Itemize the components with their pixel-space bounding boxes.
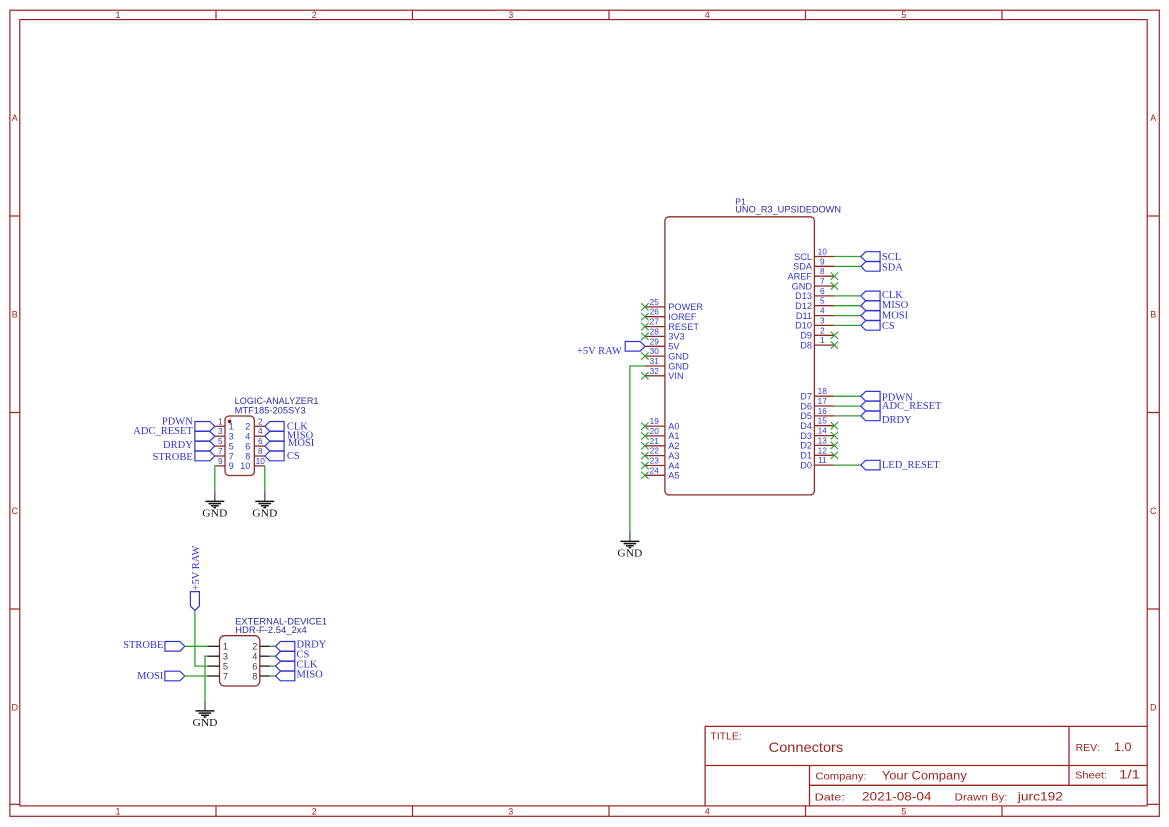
- svg-text:22: 22: [650, 446, 660, 456]
- power flag +5V RAW (above EXTERNAL-DEVICE1): [190, 545, 202, 610]
- svg-text:9: 9: [218, 456, 223, 466]
- wire EXTERNAL-DEVICE1 pin 3 to ground: [205, 656, 207, 701]
- svg-text:1: 1: [820, 335, 825, 345]
- svg-text:DRDY: DRDY: [882, 415, 912, 426]
- svg-text:9: 9: [820, 256, 825, 266]
- LOGIC-ANALYZER1 pin 9: [215, 456, 234, 471]
- svg-text:6: 6: [258, 436, 263, 446]
- P1 pin 4 (D11): [796, 306, 835, 321]
- svg-text:VIN: VIN: [668, 371, 683, 381]
- EXTERNAL-DEVICE1 pin 8: [252, 671, 270, 681]
- svg-text:HDR-F-2.54_2x4: HDR-F-2.54_2x4: [235, 625, 307, 635]
- svg-text:8: 8: [258, 446, 263, 456]
- svg-text:D: D: [1150, 702, 1157, 712]
- svg-text:GND: GND: [668, 361, 689, 371]
- svg-text:MOSI: MOSI: [288, 438, 315, 449]
- svg-text:15: 15: [818, 416, 828, 426]
- svg-text:6: 6: [252, 661, 257, 671]
- svg-text:DRDY: DRDY: [163, 440, 193, 451]
- no-connect X on P1 pin 21: [641, 442, 648, 449]
- P1 pin 32 (VIN): [645, 366, 684, 381]
- svg-text:26: 26: [650, 307, 660, 317]
- svg-text:4: 4: [820, 306, 825, 316]
- svg-text:CS: CS: [287, 451, 300, 462]
- net flag CS (P1 side): [861, 321, 895, 332]
- svg-text:UNO_R3_UPSIDEDOWN: UNO_R3_UPSIDEDOWN: [735, 205, 841, 215]
- svg-text:3: 3: [820, 315, 825, 325]
- P1 pin 13 (D2): [800, 435, 834, 450]
- net flag DRDY (P1 side): [861, 411, 912, 426]
- wire LOGIC-ANALYZER1 pin 10 to ground: [264, 466, 266, 492]
- svg-text:2: 2: [820, 325, 825, 335]
- LOGIC-ANALYZER1 pin 8: [245, 446, 265, 461]
- connector EXTERNAL-DEVICE1 HDR-F-2.54_2x4 body: [220, 617, 328, 687]
- svg-text:ADC_RESET: ADC_RESET: [133, 426, 193, 437]
- svg-text:MTF185-205SY3: MTF185-205SY3: [235, 405, 306, 415]
- svg-text:7: 7: [820, 276, 825, 286]
- EXTERNAL-DEVICE1 pin 6: [252, 661, 270, 671]
- P1 pin 14 (D3): [800, 426, 834, 441]
- svg-text:GND: GND: [792, 281, 813, 291]
- svg-text:D9: D9: [800, 331, 812, 341]
- svg-text:30: 30: [650, 346, 660, 356]
- wire P1 to net flag SDA: [834, 265, 860, 267]
- svg-text:3: 3: [508, 10, 513, 20]
- svg-text:8: 8: [252, 671, 257, 681]
- svg-text:2: 2: [312, 10, 317, 20]
- net flag MOSI (P1 side): [861, 311, 909, 322]
- no-connect X on P1 pin 14: [831, 432, 838, 439]
- P1 pin 31 (GND): [645, 356, 689, 371]
- P1 pin 3 (D10): [795, 315, 834, 330]
- svg-text:POWER: POWER: [668, 302, 703, 312]
- P1 pin 15 (D4): [800, 416, 834, 431]
- svg-text:21: 21: [650, 436, 660, 446]
- wire P1 to net flag PDWN: [834, 395, 860, 397]
- wire P1 pin 31 (GND) down to ground: [630, 366, 645, 531]
- svg-text:1: 1: [223, 642, 228, 652]
- P1 pin 12 (D1): [800, 445, 834, 460]
- EXTERNAL-DEVICE1 pin 4: [252, 652, 270, 662]
- svg-text:5: 5: [223, 661, 228, 671]
- LOGIC-ANALYZER1 pin 7: [215, 446, 234, 461]
- svg-text:CS: CS: [882, 321, 895, 332]
- svg-text:5: 5: [229, 441, 234, 451]
- net flag CS (LOGIC-ANALYZER1 side): [265, 451, 300, 462]
- pin 1 marker dot on LOGIC-ANALYZER1: [228, 420, 232, 424]
- LOGIC-ANALYZER1 pin 10: [240, 456, 265, 471]
- svg-text:9: 9: [229, 461, 234, 471]
- svg-text:Date:: Date:: [815, 792, 845, 804]
- svg-text:STROBE: STROBE: [153, 452, 193, 463]
- no-connect X on P1 pin 8: [831, 273, 838, 280]
- svg-text:1.0: 1.0: [1114, 742, 1132, 754]
- svg-text:GND: GND: [617, 547, 642, 559]
- svg-text:6: 6: [820, 286, 825, 296]
- P1 pin 27 (RESET): [645, 317, 699, 332]
- svg-text:3V3: 3V3: [668, 332, 684, 342]
- svg-text:6: 6: [245, 441, 250, 451]
- svg-text:RESET: RESET: [668, 322, 699, 332]
- svg-text:REV:: REV:: [1076, 742, 1100, 754]
- svg-text:IOREF: IOREF: [668, 312, 696, 322]
- svg-text:5: 5: [820, 296, 825, 306]
- LOGIC-ANALYZER1 pin 1: [215, 416, 234, 431]
- P1 pin 26 (IOREF): [645, 307, 697, 322]
- P1 pin 28 (3V3): [645, 326, 685, 341]
- net flag DRDY (EXTERNAL-DEVICE1 side): [276, 640, 327, 651]
- P1 pin 18 (D7): [800, 386, 834, 401]
- net flag SCL (P1 side): [861, 252, 901, 263]
- svg-text:MOSI: MOSI: [137, 671, 164, 682]
- svg-text:D: D: [12, 702, 19, 712]
- svg-text:D6: D6: [800, 401, 812, 411]
- LOGIC-ANALYZER1 pin 3: [215, 426, 234, 441]
- P1 pin 11 (D0): [800, 455, 834, 470]
- svg-text:3: 3: [223, 652, 228, 662]
- svg-text:5: 5: [901, 10, 906, 20]
- P1 pin 16 (D5): [800, 406, 834, 421]
- svg-text:1: 1: [115, 806, 120, 816]
- net flag CLK (LOGIC-ANALYZER1 side): [265, 421, 309, 432]
- wire MOSI flag to EXTERNAL-DEVICE1 pin 7: [185, 675, 208, 677]
- P1 pin 24 (A5): [645, 465, 680, 480]
- svg-text:1: 1: [218, 416, 223, 426]
- svg-text:4: 4: [258, 426, 263, 436]
- svg-text:D3: D3: [800, 431, 812, 441]
- no-connect X on P1 pin 26: [641, 313, 648, 320]
- svg-text:10: 10: [256, 456, 266, 466]
- svg-text:20: 20: [650, 426, 660, 436]
- wire EXTERNAL-DEVICE1 to net flag MISO: [270, 675, 276, 677]
- net flag MOSI (EXTERNAL-DEVICE1 side): [137, 671, 185, 682]
- wire P1 to net flag LED_RESET: [834, 464, 860, 466]
- no-connect X on P1 pin 20: [641, 432, 648, 439]
- P1 pin 29 (5V): [645, 336, 681, 351]
- net flag PDWN (P1 side): [861, 391, 913, 403]
- svg-text:32: 32: [650, 366, 660, 376]
- svg-text:LED_RESET: LED_RESET: [882, 460, 940, 471]
- svg-text:4: 4: [245, 432, 250, 442]
- P1 pin 30 (GND): [645, 346, 689, 361]
- svg-text:A4: A4: [668, 461, 679, 471]
- net flag CS (EXTERNAL-DEVICE1 side): [276, 650, 310, 661]
- svg-text:A2: A2: [668, 441, 679, 451]
- svg-text:C: C: [12, 506, 19, 516]
- no-connect X on P1 pin 32: [641, 372, 648, 379]
- svg-text:1: 1: [229, 422, 234, 432]
- P1 pin 23 (A4): [645, 456, 680, 471]
- svg-text:11: 11: [818, 455, 827, 465]
- svg-text:A0: A0: [668, 421, 679, 431]
- net flag ADC_RESET (P1 side): [861, 401, 942, 412]
- svg-text:ADC_RESET: ADC_RESET: [882, 401, 942, 412]
- svg-text:A1: A1: [668, 431, 679, 441]
- svg-text:GND: GND: [193, 717, 218, 729]
- P1 pin 2 (D9): [800, 325, 834, 340]
- svg-text:2021-08-04: 2021-08-04: [862, 790, 932, 804]
- ground symbol GND (below EXTERNAL-DEVICE1): [193, 701, 218, 729]
- net flag DRDY (LOGIC-ANALYZER1 side): [163, 440, 215, 451]
- svg-text:8: 8: [245, 451, 250, 461]
- P1 pin 19 (A0): [645, 416, 680, 431]
- ground symbol GND (below P1): [617, 531, 642, 559]
- P1 pin 20 (A1): [645, 426, 680, 441]
- wire P1 to net flag CLK: [834, 295, 860, 297]
- no-connect X on P1 pin 15: [831, 422, 838, 429]
- svg-text:3: 3: [218, 426, 223, 436]
- svg-text:GND: GND: [668, 351, 689, 361]
- net flag ADC_RESET (LOGIC-ANALYZER1 side): [133, 426, 215, 441]
- svg-text:A5: A5: [668, 471, 679, 481]
- svg-text:MOSI: MOSI: [882, 311, 909, 322]
- P1 pin 9 (SDA): [793, 256, 834, 271]
- svg-text:+5V RAW: +5V RAW: [577, 346, 622, 357]
- svg-text:D11: D11: [796, 311, 812, 321]
- svg-text:2: 2: [252, 642, 257, 652]
- svg-text:jurc192: jurc192: [1017, 790, 1064, 804]
- title block: [705, 726, 1147, 806]
- svg-text:D2: D2: [800, 441, 812, 451]
- svg-text:D13: D13: [795, 291, 812, 301]
- P1 pin 5 (D12): [795, 296, 834, 311]
- no-connect X on P1 pin 27: [641, 323, 648, 330]
- P1 pin 21 (A2): [645, 436, 680, 451]
- svg-text:Your Company: Your Company: [882, 770, 967, 782]
- net flag MISO (P1 side): [861, 300, 909, 311]
- EXTERNAL-DEVICE1 pin 7: [207, 671, 228, 681]
- P1 pin 22 (A3): [645, 446, 680, 461]
- P1 pin 25 (POWER): [645, 297, 703, 312]
- P1 pin 8 (AREF): [787, 266, 834, 281]
- no-connect X on P1 pin 24: [641, 472, 648, 479]
- net flag MISO (EXTERNAL-DEVICE1 side): [276, 670, 324, 681]
- net flag CLK (P1 side): [861, 290, 904, 301]
- LOGIC-ANALYZER1 pin 6: [245, 436, 265, 451]
- no-connect X on P1 pin 25: [641, 303, 648, 310]
- svg-text:5V: 5V: [668, 342, 680, 352]
- svg-text:A3: A3: [668, 451, 679, 461]
- wire P1 to net flag CS: [834, 324, 860, 326]
- wire P1 to net flag DRDY: [834, 415, 860, 417]
- net flag MISO (LOGIC-ANALYZER1 side): [265, 430, 314, 441]
- P1 pin 6 (D13): [795, 286, 834, 301]
- svg-text:7: 7: [223, 671, 228, 681]
- net flag LED_RESET (P1 side): [861, 460, 940, 471]
- wire EXTERNAL-DEVICE1 to net flag CS: [270, 655, 276, 657]
- svg-text:31: 31: [650, 356, 660, 366]
- svg-text:3: 3: [229, 432, 234, 442]
- EXTERNAL-DEVICE1 pin 2: [252, 642, 270, 652]
- svg-text:16: 16: [818, 406, 828, 416]
- svg-text:28: 28: [650, 326, 660, 336]
- svg-text:MISO: MISO: [297, 670, 324, 681]
- svg-text:3: 3: [508, 806, 513, 816]
- no-connect X on P1 pin 28: [641, 333, 648, 340]
- svg-text:27: 27: [650, 317, 660, 327]
- svg-text:1: 1: [115, 10, 120, 20]
- wire P1 to net flag MOSI: [834, 315, 860, 317]
- no-connect X on P1 pin 23: [641, 462, 648, 469]
- svg-text:D7: D7: [800, 392, 812, 402]
- svg-text:13: 13: [818, 435, 828, 445]
- svg-text:18: 18: [818, 386, 828, 396]
- svg-text:+5V RAW: +5V RAW: [191, 545, 202, 590]
- P1 pin 1 (D8): [800, 335, 834, 350]
- no-connect X on P1 pin 2: [831, 332, 838, 339]
- wire STROBE flag to EXTERNAL-DEVICE1 pin 1: [185, 645, 208, 647]
- wire P1 to net flag ADC_RESET: [834, 405, 860, 407]
- wire LOGIC-ANALYZER1 pin 9 to ground: [214, 466, 216, 492]
- svg-text:D8: D8: [800, 340, 812, 350]
- P1 pin 10 (SCL): [794, 247, 834, 262]
- net flag MOSI (LOGIC-ANALYZER1 side): [265, 438, 315, 451]
- no-connect X on P1 pin 1: [831, 341, 838, 348]
- wire EXTERNAL-DEVICE1 to net flag DRDY: [270, 645, 276, 647]
- svg-text:4: 4: [705, 806, 710, 816]
- no-connect X on P1 pin 13: [831, 442, 838, 449]
- P1 pin 7 (GND): [792, 276, 835, 291]
- ground symbol GND (below LOGIC-ANALYZER1 pin 9): [202, 491, 227, 519]
- svg-text:SDA: SDA: [882, 262, 903, 273]
- no-connect X on P1 pin 22: [641, 452, 648, 459]
- svg-text:D10: D10: [795, 321, 812, 331]
- svg-text:LOGIC-ANALYZER1: LOGIC-ANALYZER1: [235, 396, 319, 406]
- net flag SDA (P1 side): [861, 262, 904, 274]
- svg-text:23: 23: [650, 456, 660, 466]
- svg-text:A: A: [1150, 113, 1156, 123]
- svg-text:10: 10: [818, 247, 828, 257]
- power flag +5V RAW on P1 pin 29: [577, 342, 645, 357]
- no-connect X on P1 pin 7: [831, 282, 838, 289]
- svg-text:10: 10: [240, 461, 250, 471]
- svg-text:SCL: SCL: [794, 252, 812, 262]
- LOGIC-ANALYZER1 pin 4: [245, 426, 265, 441]
- svg-text:2: 2: [312, 806, 317, 816]
- svg-text:C: C: [1150, 506, 1157, 516]
- svg-text:7: 7: [218, 446, 223, 456]
- no-connect X on P1 pin 30: [641, 352, 648, 359]
- svg-text:MISO: MISO: [882, 300, 909, 311]
- LOGIC-ANALYZER1 pin 5: [215, 436, 234, 451]
- ground symbol GND (below LOGIC-ANALYZER1 pin 10): [252, 491, 277, 519]
- net flag STROBE (EXTERNAL-DEVICE1 side): [123, 640, 185, 651]
- svg-text:B: B: [12, 309, 18, 319]
- svg-text:Drawn By:: Drawn By:: [955, 792, 1008, 804]
- svg-text:17: 17: [818, 396, 828, 406]
- svg-text:25: 25: [650, 297, 660, 307]
- svg-text:Sheet:: Sheet:: [1075, 769, 1107, 781]
- svg-text:TITLE:: TITLE:: [710, 730, 742, 742]
- svg-text:8: 8: [820, 266, 825, 276]
- svg-text:Connectors: Connectors: [769, 739, 844, 755]
- svg-text:1/1: 1/1: [1119, 769, 1140, 781]
- EXTERNAL-DEVICE1 pin 5: [207, 661, 228, 671]
- svg-text:5: 5: [218, 436, 223, 446]
- svg-text:AREF: AREF: [787, 272, 812, 282]
- svg-text:12: 12: [818, 445, 828, 455]
- svg-text:4: 4: [705, 10, 710, 20]
- EXTERNAL-DEVICE1 pin 1: [207, 642, 228, 652]
- svg-text:SDA: SDA: [793, 262, 813, 272]
- svg-text:14: 14: [818, 426, 828, 436]
- P1 pin 17 (D6): [800, 396, 834, 411]
- svg-text:D12: D12: [795, 301, 812, 311]
- svg-text:4: 4: [252, 652, 257, 662]
- svg-text:2: 2: [245, 422, 250, 432]
- connector P1 UNO_R3_UPSIDEDOWN body: [665, 196, 841, 495]
- no-connect X on P1 pin 19: [641, 422, 648, 429]
- svg-text:D4: D4: [800, 421, 812, 431]
- LOGIC-ANALYZER1 pin 2: [245, 416, 265, 431]
- net flag CLK (EXTERNAL-DEVICE1 side): [276, 660, 318, 671]
- svg-text:29: 29: [650, 336, 660, 346]
- EXTERNAL-DEVICE1 pin 3: [207, 652, 228, 662]
- svg-text:GND: GND: [252, 507, 277, 519]
- svg-text:19: 19: [650, 416, 660, 426]
- wire P1 to net flag SCL: [834, 256, 860, 258]
- svg-text:7: 7: [229, 451, 234, 461]
- wire P1 to net flag MISO: [834, 305, 860, 307]
- net flag PDWN (LOGIC-ANALYZER1 side): [162, 417, 215, 432]
- svg-text:D1: D1: [800, 451, 812, 461]
- svg-text:2: 2: [258, 416, 263, 426]
- svg-text:A: A: [12, 113, 18, 123]
- svg-text:Company:: Company:: [815, 770, 866, 782]
- wire EXTERNAL-DEVICE1 to net flag CLK: [270, 665, 276, 667]
- no-connect X on P1 pin 12: [831, 452, 838, 459]
- svg-text:GND: GND: [202, 507, 227, 519]
- svg-text:B: B: [1150, 309, 1156, 319]
- svg-text:24: 24: [650, 465, 660, 475]
- svg-text:5: 5: [901, 806, 906, 816]
- svg-text:STROBE: STROBE: [123, 640, 163, 651]
- wire +5V RAW flag to EXTERNAL-DEVICE1 pin 5: [195, 610, 208, 666]
- connector LOGIC-ANALYZER1 MTF185-205SY3 body: [225, 396, 319, 476]
- svg-text:D0: D0: [800, 460, 812, 470]
- svg-text:D5: D5: [800, 411, 812, 421]
- net flag STROBE (LOGIC-ANALYZER1 side): [153, 451, 215, 463]
